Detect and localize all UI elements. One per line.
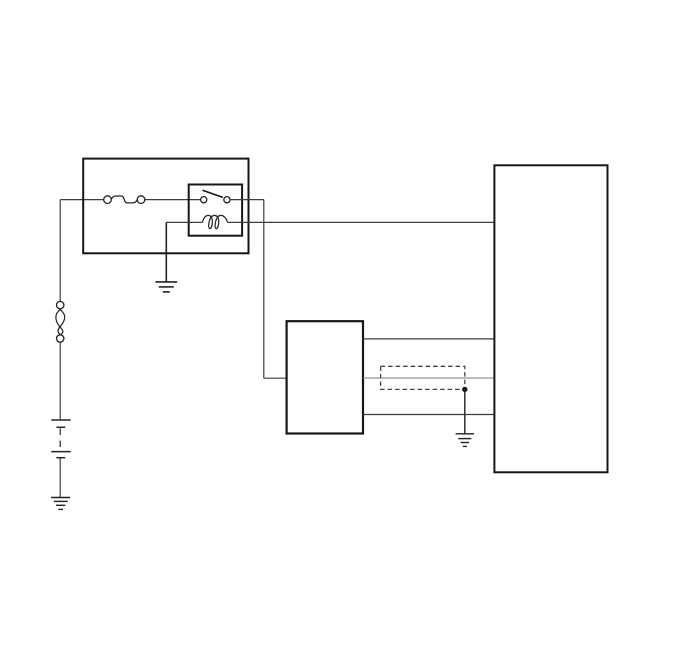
wire switch output to vertical drop xyxy=(230,199,264,201)
wire battery vertical drop xyxy=(59,200,61,302)
fuse F1 xyxy=(104,196,145,204)
wire fusible link to battery xyxy=(59,342,61,419)
relay inner box xyxy=(189,185,242,236)
wire battery feed horizontal to fuse xyxy=(60,199,103,201)
wire vertical drop x264 xyxy=(263,200,265,379)
relay switch blade xyxy=(203,190,223,197)
right instrument box xyxy=(494,165,607,472)
wire ground drop vertical from coil xyxy=(165,222,167,281)
relay coil L1 xyxy=(203,215,228,228)
wire coil right lead to right box xyxy=(228,221,495,223)
wire middle box output mid (data line) xyxy=(363,377,494,379)
wire middle box output top xyxy=(363,338,494,340)
battery B1 plates xyxy=(51,420,70,458)
battery dashed cell link xyxy=(59,429,61,451)
relay switch contacts xyxy=(201,197,230,203)
wire shield drop to ground xyxy=(464,389,466,433)
junction dot shield xyxy=(462,387,467,392)
wire into middle box left xyxy=(264,377,287,379)
ground G3 (shield) xyxy=(456,434,474,447)
wire middle box output bottom xyxy=(363,414,494,416)
dashed shield box xyxy=(381,366,465,389)
ground G2 (battery) xyxy=(51,498,70,510)
ground G1 (relay) xyxy=(155,282,177,292)
relay enclosure box xyxy=(83,159,248,254)
fusible link twisted element xyxy=(56,309,65,334)
wire fuse to relay switch xyxy=(145,199,201,201)
fusible link circles xyxy=(57,301,64,342)
wire battery to ground xyxy=(59,458,61,497)
wire coil left lead to ground drop xyxy=(166,221,202,223)
middle control box xyxy=(287,321,363,433)
